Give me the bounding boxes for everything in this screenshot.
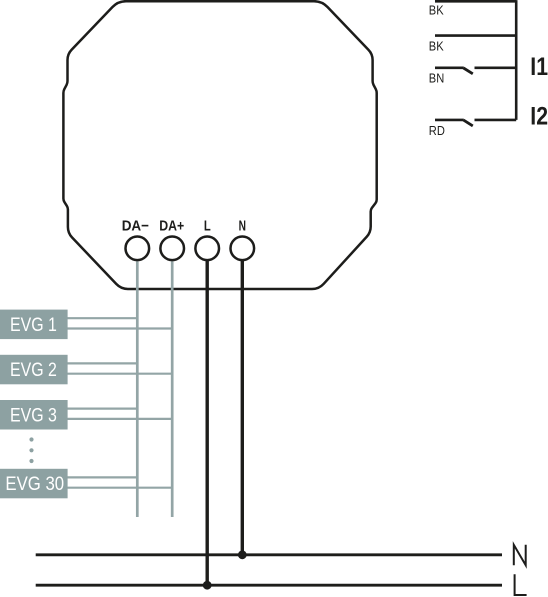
svg-text:EVG 2: EVG 2 [10,359,57,381]
wire input bus vertical [515,0,518,120]
wire EVG1 to DA- bus [66,317,138,319]
svg-text:N: N [239,216,246,234]
ballast EVG 30 box [0,469,68,499]
ballast EVG 1 box [0,310,68,340]
ballast EVG 2 box [0,355,68,385]
svg-text:BN: BN [429,71,444,86]
wire EVG3 to DA+ bus [66,418,173,420]
svg-text:EVG 1: EVG 1 [10,313,57,335]
switch S2 blade [464,120,473,126]
wire mains L [36,584,502,587]
device outline U1 (flush-mount DALI actuator body) [63,1,376,289]
wire DA+ bus vertical [171,261,174,517]
svg-text:BK: BK [429,3,444,18]
junction node on L [203,581,212,590]
junction node on N [238,550,247,559]
node label L (mains line) [515,574,527,595]
svg-text:RD: RD [429,123,445,138]
wire DA- bus vertical [136,261,139,517]
svg-text:DA+: DA+ [159,217,184,233]
switch S1 blade [464,68,473,74]
svg-text:EVG 30: EVG 30 [5,473,64,494]
svg-text:I2: I2 [530,102,548,130]
wire EVG1 to DA+ bus [66,327,173,329]
wire mains N [36,553,502,556]
terminal DA+ [160,237,184,261]
svg-text:L: L [204,217,211,234]
switch S2 wire right to I2 [475,119,517,122]
terminal N [231,237,255,261]
terminal DA- [126,237,150,261]
svg-text:BK: BK [429,39,444,54]
wire EVG3 to DA- bus [66,408,138,410]
switch S2 wire left (RD) [435,119,464,122]
ballast EVG 3 box [0,400,68,430]
svg-text:I1: I1 [530,53,548,81]
wire L down to mains L [205,261,208,585]
wire N down to mains N [241,261,244,555]
wire EVG2 to DA- bus [66,362,138,364]
wire EVG30 to DA+ bus [66,487,173,489]
switch S1 wire right to I1 [475,67,517,70]
terminal L [195,237,219,261]
ellipsis (more ballasts) [29,437,33,463]
wire BK (second) [435,34,516,37]
wire EVG30 to DA- bus [66,476,138,478]
node label N (mains neutral) [514,545,526,565]
wire EVG2 to DA+ bus [66,373,173,375]
svg-text:EVG 3: EVG 3 [10,404,57,426]
switch S1 wire left (BN) [435,67,464,70]
wire BK (top, supply) [435,0,516,3]
svg-text:DA−: DA− [122,218,149,235]
